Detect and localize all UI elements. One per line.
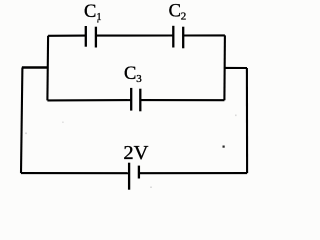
wire bottom left segment (21, 172, 129, 174)
svg-text:2: 2 (181, 11, 187, 23)
svg-text:C: C (84, 2, 96, 22)
capacitor C1 left plate (85, 26, 87, 47)
scan speck (97, 20, 99, 22)
capacitor C1 right plate (95, 27, 97, 48)
scan speck (25, 133, 27, 135)
label C1 (84, 2, 102, 23)
wire top branch middle segment between C1 and C2 (96, 34, 173, 36)
wire outer-right vertical (246, 68, 248, 173)
wire C3 branch right segment (140, 99, 224, 101)
capacitor C2 right plate (182, 27, 184, 49)
wire bottom right segment (139, 172, 247, 174)
wire right connector (225, 67, 248, 69)
wire inner-right vertical (223, 35, 226, 100)
wire outer-left vertical (21, 68, 22, 174)
scan speck (223, 146, 225, 148)
label C3 (124, 64, 142, 85)
svg-text:2V: 2V (123, 142, 148, 164)
wire left connector (22, 66, 48, 68)
svg-text:C: C (169, 2, 181, 22)
capacitor C3 left plate (130, 88, 132, 111)
battery left plate (long) (128, 163, 130, 190)
battery right plate (short) (138, 166, 140, 179)
wire top branch right segment (183, 34, 225, 36)
scan speck (150, 187, 152, 189)
wire top branch left segment (48, 35, 86, 37)
capacitor C3 right plate (139, 89, 141, 112)
scan speck (62, 122, 64, 124)
label C2 (169, 2, 187, 23)
wire inner-left vertical (46, 36, 49, 101)
wire C3 branch left segment (47, 99, 131, 101)
svg-text:C: C (124, 64, 136, 84)
scan speck (235, 115, 237, 117)
svg-text:3: 3 (136, 73, 142, 85)
capacitor C2 left plate (172, 26, 174, 48)
